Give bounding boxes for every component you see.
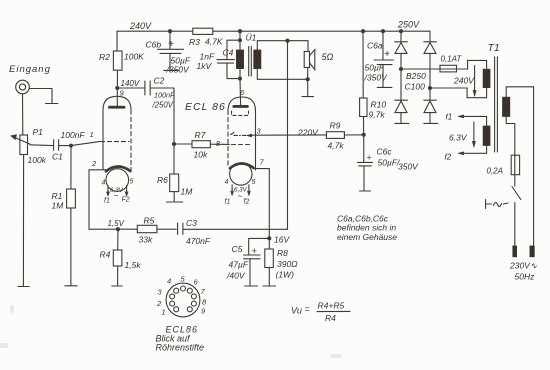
wire speaker bottom lead	[307, 68, 309, 97]
speaker LS	[304, 50, 315, 70]
svg-text:C4: C4	[223, 48, 234, 58]
svg-text:47µF: 47µF	[229, 260, 249, 270]
wire secondary top to speaker	[257, 41, 308, 52]
svg-text:+: +	[168, 39, 174, 50]
svg-text:T1: T1	[488, 42, 500, 54]
svg-text:/350V: /350V	[166, 65, 191, 75]
resistor R2	[113, 51, 122, 88]
svg-text:R4+R5: R4+R5	[318, 301, 345, 311]
node C4 bottom / pin6	[238, 77, 242, 81]
node 140V (triode anode)	[115, 86, 119, 90]
node rail to OT primary	[238, 29, 242, 33]
resistor R4	[113, 229, 122, 285]
svg-text:9,7k: 9,7k	[369, 110, 386, 120]
capacitor C3	[178, 223, 183, 235]
diode D4	[424, 88, 437, 123]
tube V1b cathode	[230, 163, 253, 168]
svg-text:5: 5	[252, 179, 256, 186]
svg-text:390Ω: 390Ω	[277, 259, 298, 269]
resistor R9	[326, 132, 363, 139]
switch linkage symbol	[486, 200, 508, 209]
svg-text:R3: R3	[189, 37, 200, 47]
node R6/R7	[172, 142, 176, 146]
node C6a rail tap	[381, 29, 385, 33]
svg-text:/350V: /350V	[364, 73, 389, 83]
tube V1a anode plate	[110, 106, 125, 109]
svg-text:(1W): (1W)	[276, 270, 295, 280]
formula Vu	[291, 301, 350, 324]
resistor R6	[170, 144, 179, 202]
svg-text:50µF: 50µF	[365, 63, 385, 73]
transformer U1 secondary winding	[254, 50, 261, 69]
node C6b tap	[168, 29, 172, 33]
diode D3	[424, 42, 437, 88]
svg-text:5: 5	[130, 179, 134, 186]
svg-text:4,7K: 4,7K	[205, 37, 223, 47]
svg-text:100K: 100K	[124, 52, 144, 62]
resistor R10	[360, 31, 367, 135]
svg-text:R9: R9	[330, 121, 341, 131]
svg-text:R4: R4	[325, 313, 336, 323]
svg-text:1M: 1M	[52, 201, 65, 211]
svg-text:220V: 220V	[297, 128, 319, 138]
wire pin 3 to 220V	[252, 134, 327, 136]
resistor R7	[174, 141, 229, 148]
svg-text:/250V: /250V	[152, 101, 174, 110]
svg-text:R10: R10	[371, 100, 387, 110]
svg-text:R8: R8	[277, 248, 288, 258]
svg-text:f1: f1	[446, 113, 453, 122]
ground (R6)	[167, 201, 183, 203]
transformer T1 mains winding	[503, 97, 510, 116]
svg-text:470nF: 470nF	[186, 236, 211, 246]
ground (chassis at jack)	[46, 103, 59, 105]
svg-text:6.3V: 6.3V	[449, 133, 468, 143]
tube V1b heater circle	[230, 163, 252, 185]
svg-text:R1: R1	[52, 191, 63, 201]
wire AC1 to fuse Si1	[401, 68, 468, 70]
potentiometer P1	[11, 135, 30, 155]
fuse Si2 0,2A	[511, 155, 519, 175]
svg-text:C5: C5	[232, 244, 243, 254]
svg-text:R7: R7	[195, 130, 206, 140]
tube V1a cathode	[106, 166, 130, 171]
node bridge left top	[399, 29, 403, 33]
capacitor C2	[117, 81, 174, 95]
svg-text:f1: f1	[104, 198, 110, 205]
svg-text:Vu: Vu	[291, 306, 302, 316]
socket diagram circle	[166, 283, 200, 317]
svg-text:240V: 240V	[129, 21, 152, 31]
resistor R5	[118, 225, 176, 232]
svg-text:C2: C2	[154, 76, 165, 86]
svg-text:16V: 16V	[274, 235, 290, 245]
node feedback takeoff	[285, 39, 289, 43]
svg-text:Ü1: Ü1	[246, 33, 257, 43]
heater pin arrows f1 f2 (V1a)	[107, 186, 129, 197]
wire C3 to feedback riser	[183, 228, 288, 230]
resistor R1	[67, 146, 76, 286]
tube V1b anode plate	[234, 105, 248, 108]
tube V1b g3 / pin3 line (dash-dot)	[231, 132, 252, 137]
wire C4 top branch	[227, 40, 240, 59]
transformer T1 6.3V winding	[483, 126, 490, 146]
svg-text:P1: P1	[33, 127, 44, 137]
transformer U1 primary winding	[236, 40, 243, 78]
switch S1	[512, 175, 521, 246]
svg-text:33k: 33k	[139, 235, 153, 245]
svg-text:R2: R2	[99, 52, 110, 62]
svg-text:4: 4	[167, 277, 171, 286]
svg-text:Eingang: Eingang	[9, 64, 51, 75]
mains plug pin L	[513, 246, 517, 257]
arrow 240V winding	[473, 66, 476, 97]
svg-text:1M: 1M	[181, 187, 194, 197]
transformer T1 240V winding	[483, 69, 490, 87]
ground (D4)	[424, 122, 438, 124]
svg-text:Röhrenstifte: Röhrenstifte	[156, 343, 205, 353]
ground (C6c)	[360, 190, 371, 192]
svg-text:/40V: /40V	[226, 271, 246, 281]
resistor R8	[265, 238, 274, 285]
ground (C6a)	[377, 86, 392, 88]
svg-text:=: =	[305, 304, 310, 314]
wire P1 bottom to ground	[22, 155, 24, 287]
capacitor C1	[54, 140, 59, 150]
wire f1 lead with arrow	[458, 115, 487, 126]
svg-text:1,5k: 1,5k	[125, 260, 142, 270]
mains plug pin N	[530, 246, 535, 257]
diode D1	[395, 31, 408, 69]
svg-text:C1: C1	[52, 152, 63, 162]
wire jack to chassis ground	[29, 89, 52, 104]
wire jack to P1	[22, 94, 24, 135]
resistor R3	[193, 28, 213, 34]
svg-text:~: ~	[114, 192, 119, 201]
wire P1 wiper to C1	[30, 144, 54, 147]
svg-text:f2: f2	[445, 153, 452, 162]
svg-text:+: +	[384, 49, 390, 60]
ground (R1)	[65, 285, 77, 287]
capacitor C4	[217, 60, 240, 79]
svg-text:140V: 140V	[121, 79, 140, 88]
wire AC2 to T1 primary bottom	[430, 88, 487, 98]
wire rail to R2	[116, 31, 118, 51]
ground (P1)	[18, 286, 29, 288]
tube V1b pentode envelope	[228, 97, 256, 170]
node C4 top	[238, 38, 242, 42]
svg-text:50Hz: 50Hz	[515, 272, 536, 282]
node R10 rail tap	[361, 29, 365, 33]
svg-text:F2: F2	[122, 197, 130, 204]
svg-text:4,7k: 4,7k	[328, 141, 345, 151]
wire C1 to grid, node at R1	[59, 142, 100, 146]
diode D2	[395, 69, 408, 123]
wire 16V node to C5	[249, 238, 270, 254]
tube V1b control grid g1 (dashed)	[232, 144, 253, 146]
transformer U1 core	[249, 47, 252, 77]
svg-text:C6c: C6c	[377, 147, 393, 157]
smudge marks	[0, 305, 342, 358]
svg-text:100k: 100k	[28, 155, 47, 165]
svg-text:1: 1	[162, 308, 166, 317]
socket pin holes 1-9	[170, 286, 197, 312]
svg-text:1: 1	[90, 130, 94, 139]
svg-text:2: 2	[156, 299, 162, 308]
transformer T1 core	[495, 57, 498, 152]
svg-text:C6b: C6b	[146, 40, 162, 50]
ground (C5)	[245, 285, 258, 287]
svg-text:1,5V: 1,5V	[108, 219, 125, 228]
capacitor C6b	[158, 31, 184, 70]
svg-text:2: 2	[91, 159, 97, 168]
svg-text:+: +	[252, 246, 257, 256]
svg-text:befinden sich in: befinden sich in	[337, 223, 396, 233]
svg-text:ECL 86: ECL 86	[185, 101, 226, 113]
wire rail corner to right diodes	[429, 31, 431, 42]
wire anode lead	[116, 88, 118, 106]
svg-text:+: +	[367, 152, 372, 162]
input jack J1	[16, 80, 30, 94]
svg-text:R4: R4	[100, 250, 111, 260]
svg-text:f2: f2	[244, 199, 250, 206]
wire C2 down to R6/R7 node	[173, 88, 175, 144]
node 16V	[267, 236, 271, 240]
wire pin 6 lead	[239, 79, 242, 105]
capacitor C6c	[357, 135, 372, 191]
svg-text:C6a: C6a	[367, 41, 383, 51]
node 1,5V	[116, 227, 120, 231]
svg-text:~: ~	[238, 192, 243, 201]
wire cathode V1a to 1,5V node	[89, 170, 118, 229]
arrow 6.3V winding	[472, 122, 475, 148]
svg-text:B250: B250	[406, 71, 426, 81]
svg-text:230V∿: 230V∿	[509, 261, 537, 271]
svg-text:1kV: 1kV	[197, 61, 213, 71]
fuse Si1 0,1AT	[440, 65, 457, 72]
svg-text:0,2A: 0,2A	[487, 167, 503, 176]
ground (speaker)	[302, 96, 314, 98]
node speaker bottom	[306, 77, 310, 81]
node AC2	[428, 86, 432, 90]
svg-text:240V: 240V	[453, 76, 475, 86]
wire mains winding top to right leg	[506, 87, 533, 246]
wire 240V rail	[117, 30, 430, 32]
svg-text:100nF: 100nF	[154, 91, 175, 100]
svg-text:10k: 10k	[194, 150, 208, 160]
svg-text:C100: C100	[405, 82, 426, 92]
svg-text:100nF: 100nF	[61, 130, 86, 140]
wire fuse to T1 primary top	[468, 60, 487, 69]
svg-text:350V: 350V	[398, 162, 419, 172]
svg-text:C3: C3	[186, 218, 197, 228]
wire f2 lead with arrow	[458, 146, 487, 155]
wire rail to C4 tap	[239, 31, 241, 40]
svg-text:4: 4	[102, 180, 106, 187]
tube V1a grid (dashed)	[101, 141, 130, 143]
node 220V junction	[362, 133, 366, 137]
wire feedback riser to output	[287, 41, 289, 230]
svg-text:4: 4	[225, 179, 229, 186]
svg-text:R6: R6	[157, 175, 168, 185]
wire cathode V1b to 16V node	[253, 169, 269, 239]
wire mains winding bottom to fuse	[506, 117, 515, 156]
svg-text:5Ω: 5Ω	[322, 52, 334, 62]
capacitor C5	[244, 255, 261, 286]
node AC1	[399, 67, 403, 71]
svg-text:1nF: 1nF	[200, 52, 215, 62]
tube V1a heater circle	[106, 169, 129, 192]
svg-text:f1: f1	[225, 199, 231, 206]
tube V1b screen grid g2 (dashed)	[232, 111, 249, 115]
ground (R4)	[112, 285, 123, 287]
ground (C6b)	[164, 69, 179, 71]
heater pin arrows f1 f2 (V1b)	[231, 185, 251, 196]
wire secondary bottom to speaker bottom	[257, 69, 307, 80]
ground (D2)	[395, 122, 409, 124]
ground (R8)	[263, 285, 276, 287]
svg-text:250V: 250V	[397, 20, 420, 30]
svg-text:0,1AT: 0,1AT	[441, 55, 463, 64]
capacitor C6a	[374, 31, 394, 87]
svg-text:R5: R5	[144, 216, 155, 226]
junction R1 tap	[69, 144, 73, 148]
svg-text:einem Gehäuse: einem Gehäuse	[337, 232, 397, 242]
tube V1a triode envelope	[103, 96, 131, 172]
